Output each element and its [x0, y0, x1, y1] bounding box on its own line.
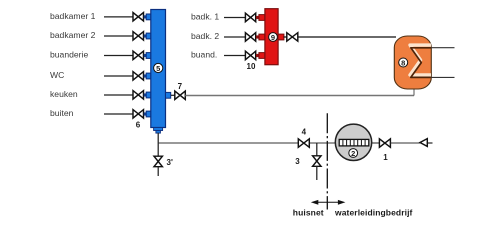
svg-text:3': 3' — [167, 158, 173, 167]
valve keuken — [133, 91, 144, 100]
stub badk. 2 — [256, 35, 259, 38]
wire buand. to valve — [224, 55, 246, 57]
boundary double arrow — [313, 201, 343, 203]
svg-text:keuken: keuken — [50, 89, 78, 99]
valve buand. (10) — [245, 51, 255, 60]
svg-text:badk. 2: badk. 2 — [191, 31, 219, 41]
wire badkamer2 to valve — [104, 35, 133, 37]
svg-text:4: 4 — [302, 128, 307, 137]
supply direction arrow — [420, 139, 427, 147]
valve hot supply — [287, 33, 298, 42]
valve WC — [133, 72, 144, 81]
wire buanderie to valve — [104, 55, 133, 57]
valve 3 (drain) — [313, 156, 321, 167]
svg-text:badkamer 1: badkamer 1 — [50, 11, 96, 21]
wire badkamer1 to valve — [104, 16, 133, 18]
valve 3' (drain) — [154, 156, 162, 167]
stub badkamer 2 — [144, 34, 147, 37]
main cold pipe (house side) — [158, 142, 298, 144]
svg-text:waterleidingbedrijf: waterleidingbedrijf — [334, 208, 413, 218]
svg-text:badk. 1: badk. 1 — [191, 12, 219, 22]
svg-text:10: 10 — [247, 62, 256, 71]
svg-text:buand.: buand. — [191, 50, 217, 60]
valve buiten (6) — [133, 110, 144, 119]
svg-text:3: 3 — [295, 157, 300, 166]
wire stub to valve 7 — [171, 94, 175, 96]
valve 1 — [379, 139, 390, 148]
valve badk. 2 — [245, 33, 255, 42]
wire badk.2 to valve — [224, 36, 246, 38]
meter register — [339, 139, 369, 146]
valve 7 — [175, 91, 186, 100]
boiler coil — [410, 45, 431, 75]
valve badkamer 1 — [133, 13, 144, 22]
circle label 9 — [269, 33, 278, 42]
stub to valve 7 — [166, 92, 171, 98]
water meter 2 — [335, 124, 371, 160]
wire WC to valve — [104, 75, 133, 77]
svg-text:1: 1 — [383, 153, 388, 162]
wire buiten to valve — [104, 113, 133, 115]
circle label 8 — [399, 58, 408, 67]
svg-text:badkamer 2: badkamer 2 — [50, 30, 96, 40]
valve badk. 1 — [245, 13, 255, 22]
svg-text:buanderie: buanderie — [50, 49, 88, 59]
svg-text:9: 9 — [271, 33, 275, 42]
svg-text:huisnet: huisnet — [293, 208, 324, 218]
wire keuken to valve — [104, 94, 133, 96]
valve buanderie — [133, 51, 144, 60]
svg-text:buiten: buiten — [50, 108, 74, 118]
stub manifold 9 right — [278, 34, 284, 40]
stub buand. — [256, 54, 259, 57]
stub buanderie — [144, 54, 147, 57]
svg-text:WC: WC — [50, 70, 64, 80]
stub keuken — [144, 93, 147, 96]
circle label 2 — [349, 149, 358, 158]
boundary dash-dot line — [326, 113, 328, 209]
pipe boiler to valve — [284, 36, 397, 38]
boiler 8 — [394, 36, 431, 89]
wire manifold 5 down — [157, 133, 159, 157]
svg-text:8: 8 — [401, 58, 405, 67]
stub buiten — [144, 112, 147, 115]
circle label 5 — [154, 63, 163, 72]
stub badk. 1 — [256, 16, 259, 19]
manifold 5 bottom stub — [154, 128, 163, 131]
pipe valve 1 to supply arrow — [390, 142, 420, 144]
manifold 9 (hot water collector) — [265, 9, 278, 65]
stub badkamer 1 — [144, 15, 147, 18]
manifold 5 (cold water collector) — [151, 10, 166, 128]
svg-text:7: 7 — [178, 82, 183, 91]
valve 4 — [298, 139, 309, 148]
heating return pipe — [431, 76, 454, 78]
pipe meter to valve 1 — [372, 142, 380, 144]
pipe valve 7 to boiler — [185, 95, 414, 97]
pipe riser into boiler bottom — [413, 87, 415, 96]
heating flow pipe — [431, 47, 454, 49]
svg-text:6: 6 — [136, 121, 141, 130]
svg-text:5: 5 — [156, 64, 160, 73]
svg-text:2: 2 — [351, 149, 355, 158]
valve badkamer 2 — [133, 32, 144, 40]
wire below valve 3 — [316, 166, 318, 180]
stub WC — [144, 74, 147, 77]
wire badk.1 to valve — [224, 17, 246, 19]
wire branch to valve 3 — [316, 143, 318, 156]
wire below valve 3' — [157, 167, 159, 176]
